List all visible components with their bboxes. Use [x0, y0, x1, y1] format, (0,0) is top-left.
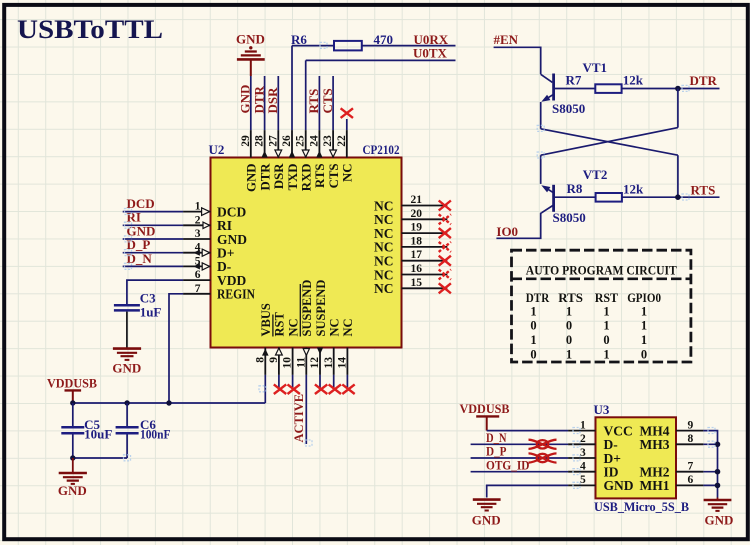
wire C5/C6 bottom join: [73, 457, 127, 459]
net label GND: [127, 223, 156, 238]
pin number 7 (U3): [688, 461, 694, 473]
pin number 28: [254, 135, 266, 147]
svg-text:GND: GND: [604, 478, 634, 493]
svg-text:USB_Micro_5S_B: USB_Micro_5S_B: [594, 500, 689, 514]
svg-text:0: 0: [603, 333, 609, 347]
transistor VT1 S8050: [541, 74, 554, 102]
svg-text:29: 29: [240, 135, 252, 147]
pin name MH3: [640, 437, 670, 452]
svg-text:19: 19: [411, 222, 423, 234]
svg-text:GND: GND: [238, 85, 253, 114]
no-ERC cross pin20: [439, 214, 451, 224]
svg-text:CP2102: CP2102: [363, 142, 400, 157]
designator C3: [140, 291, 156, 306]
earth ground below U3 right: [704, 498, 734, 528]
pin number 6: [195, 269, 201, 281]
pin name GND (pin3): [217, 232, 247, 247]
svg-text:ACTIVE: ACTIVE: [292, 394, 306, 443]
pin number 10: [282, 357, 294, 369]
pin name VBUS (rotated): [259, 303, 273, 336]
wire net RI to pin2: [123, 224, 183, 226]
svg-text:4: 4: [580, 461, 586, 473]
pin number 4 (U3): [580, 461, 586, 473]
wire net D_N to pin2: [471, 443, 568, 445]
pin number 8: [254, 357, 266, 363]
net label CTS (rotated, pin23): [320, 88, 335, 113]
svg-text:DTR: DTR: [258, 163, 272, 191]
wire pin5 to ground: [487, 485, 568, 497]
svg-text:DTR: DTR: [690, 73, 718, 88]
top pins of U2 (29..22): [251, 130, 347, 157]
pin name NC (pin14): [341, 318, 355, 336]
differential pair mark D_N: [529, 440, 557, 449]
no-ERC cross pin10: [288, 384, 300, 394]
wire RXD to U0TX: [306, 59, 456, 61]
auto program table dashed box: [512, 250, 691, 362]
pin name DSR: [272, 163, 286, 189]
table row 2: [530, 319, 647, 333]
svg-text:1: 1: [603, 304, 609, 318]
svg-text:NC: NC: [341, 164, 355, 182]
output arrow pin11: [303, 349, 309, 356]
no-ERC cross pin18: [439, 242, 451, 252]
pin name GND (U3): [604, 478, 634, 493]
wire pin22 NC stub: [346, 119, 348, 130]
pin number 9: [268, 357, 280, 363]
pin number 2: [195, 214, 201, 226]
resistor R8 body: [596, 193, 622, 202]
wire TXD to R6: [292, 45, 334, 47]
designator U3: [594, 402, 610, 417]
table header RST: [595, 290, 619, 305]
pin name MH1: [640, 478, 670, 493]
svg-text:GND: GND: [58, 483, 87, 498]
wire net GND to pin3: [123, 238, 183, 240]
wire REGIN pin7 riser: [169, 294, 183, 403]
svg-text:0: 0: [530, 319, 536, 333]
svg-text:SUSPEND: SUSPEND: [300, 280, 314, 337]
designator VT1: [583, 60, 608, 75]
capacitor C6: [116, 403, 139, 458]
svg-text:U2: U2: [209, 142, 225, 157]
net label U0RX: [414, 32, 449, 47]
wire net OTG_ID to pin4: [471, 471, 568, 473]
no-ERC cross pin15: [439, 283, 451, 293]
input arrow pin1: [202, 208, 210, 216]
pin name D+: [217, 246, 234, 261]
no-ERC cross pin16: [439, 270, 451, 280]
pin name RTS: [313, 164, 327, 188]
svg-text:NC: NC: [374, 267, 394, 282]
wire stub pin9: [278, 375, 280, 389]
svg-text:TXD: TXD: [286, 164, 300, 191]
wire VDDUSB to pin1: [487, 430, 568, 432]
designator R6: [291, 32, 307, 47]
pin number 9 (U3): [688, 419, 694, 431]
pin name NC (pin20): [374, 212, 394, 227]
svg-text:3: 3: [195, 228, 201, 240]
svg-text:1: 1: [641, 319, 647, 333]
earth ground below C3: [112, 349, 141, 376]
no-ERC cross pin12: [315, 384, 327, 394]
svg-text:#EN: #EN: [494, 32, 519, 47]
svg-text:21: 21: [411, 194, 423, 206]
wire pin8 VBUS to rail: [264, 375, 266, 403]
wire C3 to ground: [126, 312, 128, 348]
wire pin28 DTR: [264, 76, 266, 130]
wire DTR node down: [677, 89, 679, 128]
wire pin11 SUSPEND / ACTIVE: [305, 375, 307, 444]
pin name REGIN: [217, 287, 255, 302]
svg-text:9: 9: [268, 357, 280, 363]
svg-text:1: 1: [566, 347, 572, 361]
pin number 1 (U3): [580, 419, 586, 431]
pin number 27: [267, 135, 279, 147]
net label GND (rotated, pin29): [238, 85, 253, 114]
svg-text:26: 26: [281, 135, 293, 147]
svg-text:U0TX: U0TX: [413, 46, 448, 61]
svg-text:1: 1: [641, 304, 647, 318]
svg-text:R6: R6: [291, 32, 307, 47]
pin name GND (top row, rotated): [245, 164, 259, 192]
svg-text:24: 24: [308, 135, 320, 147]
junction rail/C5: [70, 400, 75, 405]
input arrow pin27: [275, 150, 282, 157]
svg-text:5: 5: [580, 474, 586, 486]
pin number 7: [195, 283, 201, 295]
bidirectional arrows pin5 D-: [193, 263, 209, 270]
input arrow pin25: [302, 150, 309, 157]
svg-text:10uF: 10uF: [84, 427, 112, 442]
svg-text:RTS: RTS: [691, 183, 716, 198]
value S8050 (VT2): [553, 210, 586, 225]
svg-text:C3: C3: [140, 291, 156, 306]
right pins of U3 (9,8,7,6): [676, 431, 703, 486]
pin number 20: [411, 208, 423, 220]
junction MH2: [715, 469, 721, 475]
svg-text:R7: R7: [566, 72, 582, 87]
svg-text:GND: GND: [705, 513, 734, 528]
svg-text:VBUS: VBUS: [259, 303, 273, 336]
wire VT2 base to R8: [555, 196, 596, 198]
pin number 2 (U3): [580, 433, 586, 445]
wire cross-couple diagonal A: [541, 129, 678, 155]
wire pin27 DSR: [277, 76, 279, 130]
svg-text:0: 0: [641, 347, 647, 361]
pin number 25: [295, 135, 307, 147]
pin name NC (pin10): [286, 318, 300, 336]
net label IO0: [496, 224, 518, 239]
svg-text:1: 1: [530, 333, 536, 347]
pin name VCC (U3): [604, 423, 633, 438]
compile mask marks (light blue): [124, 42, 716, 488]
pin number 13: [323, 357, 335, 369]
net label DCD: [127, 196, 155, 211]
junction C5 bottom: [70, 455, 75, 460]
pin name RI: [217, 218, 232, 233]
left pins of U3 (1..5): [568, 431, 595, 486]
svg-text:12k: 12k: [623, 73, 644, 88]
value S8050 (VT1): [552, 101, 585, 116]
designator VT2: [583, 167, 608, 182]
input arrow pin8: [262, 349, 269, 356]
pin name ID (U3): [604, 465, 619, 480]
svg-text:AUTO PROGRAM CIRCUIT: AUTO PROGRAM CIRCUIT: [526, 263, 677, 278]
wire R6 to U0RX: [362, 45, 456, 47]
net label D_P: [127, 237, 151, 252]
differential pair mark D_P: [529, 453, 557, 462]
pin name NC (pin22): [341, 164, 355, 182]
svg-text:USBToTTL: USBToTTL: [17, 15, 163, 44]
designator R8: [567, 181, 583, 196]
value 10uF: [84, 427, 112, 442]
svg-text:15: 15: [411, 277, 423, 289]
wire VT2 collector to IO0: [496, 213, 541, 239]
svg-text:27: 27: [267, 135, 279, 147]
designator R7: [566, 72, 582, 87]
svg-text:OTG_ID: OTG_ID: [486, 457, 530, 472]
svg-text:0: 0: [566, 333, 572, 347]
svg-text:20: 20: [411, 208, 423, 220]
right pins of U2 (21..15): [402, 206, 448, 289]
pin name D- (U3): [604, 437, 618, 452]
pin number 11: [295, 357, 307, 368]
wire stub pin13: [333, 375, 335, 389]
junction MH1: [715, 483, 721, 489]
svg-text:U3: U3: [594, 402, 610, 417]
wire pin23 CTS: [332, 76, 334, 130]
svg-text:6: 6: [195, 269, 201, 281]
pin number 8 (U3): [688, 433, 694, 445]
pin name NC (pin13): [328, 318, 342, 336]
svg-text:12: 12: [309, 357, 321, 369]
pin name NC (pin19): [374, 226, 394, 241]
svg-text:VDDUSB: VDDUSB: [47, 375, 97, 390]
svg-text:NC: NC: [286, 318, 300, 336]
pin name CTS: [327, 164, 341, 189]
table title AUTO PROGRAM CIRCUIT: [526, 263, 677, 278]
bidirectional arrows pin4 D+: [193, 249, 209, 256]
pin name MH4: [640, 423, 670, 438]
bottom pins of U2 (8..14): [265, 348, 347, 375]
part name CP2102: [363, 142, 400, 157]
input arrow pin23: [330, 150, 337, 157]
earth ground below C5: [58, 458, 87, 498]
pin number 3: [195, 228, 201, 240]
svg-text:14: 14: [337, 357, 349, 369]
svg-text:1uF: 1uF: [140, 305, 162, 320]
svg-text:GPIO0: GPIO0: [627, 290, 661, 305]
svg-text:13: 13: [323, 357, 335, 369]
pin name NC (pin21): [374, 198, 394, 213]
transistor VT2 S8050: [541, 185, 553, 213]
pin number 17: [411, 249, 423, 261]
pin number 23: [322, 135, 334, 147]
no-ERC cross pin19: [439, 228, 451, 238]
pin name SUSPEND (pin11, overline): [300, 280, 314, 337]
net label D_N (USB): [486, 430, 507, 445]
svg-text:100nF: 100nF: [140, 427, 171, 442]
input arrow pin2: [203, 222, 210, 228]
svg-text:7: 7: [688, 461, 694, 473]
connector U3 body: [596, 417, 677, 498]
svg-text:VT1: VT1: [583, 60, 608, 75]
pin name DCD (inside U2): [217, 204, 246, 219]
svg-text:23: 23: [322, 135, 334, 147]
pin name VDD: [217, 273, 246, 288]
svg-text:NC: NC: [374, 226, 394, 241]
wire stub pin10: [292, 375, 294, 389]
svg-text:S8050: S8050: [553, 210, 586, 225]
pin number 15: [411, 277, 423, 289]
svg-text:16: 16: [411, 263, 423, 275]
pin number 14: [337, 357, 349, 369]
svg-text:28: 28: [254, 135, 266, 147]
svg-text:GND: GND: [236, 32, 265, 47]
svg-text:RST: RST: [595, 290, 619, 305]
svg-text:1: 1: [641, 333, 647, 347]
svg-text:1: 1: [603, 347, 609, 361]
svg-text:RXD: RXD: [300, 164, 314, 192]
wire pin25 RXD vertical: [305, 60, 307, 130]
pin number 5: [195, 255, 201, 267]
svg-text:470: 470: [374, 32, 394, 47]
svg-text:CTS: CTS: [327, 164, 341, 189]
resistor R7 body: [595, 84, 621, 93]
svg-text:11: 11: [295, 357, 307, 368]
power port VDDUSB (USB section): [460, 401, 510, 430]
wire cross-couple diagonal B: [541, 128, 678, 156]
pin number 12: [309, 357, 321, 369]
net label D_N: [127, 251, 153, 266]
junction MH3: [715, 442, 721, 448]
wire net D_P to pin3: [471, 457, 568, 459]
wire MH bus right of U3: [703, 431, 717, 498]
pin number 3 (U3): [580, 447, 586, 459]
svg-text:25: 25: [295, 135, 307, 147]
earth ground below U3 left: [472, 500, 501, 528]
pin name NC (pin15): [374, 281, 394, 296]
wire VT1 emitter down: [540, 102, 542, 129]
input arrow pin9: [276, 348, 283, 355]
svg-text:9: 9: [688, 419, 694, 431]
svg-text:1: 1: [530, 304, 536, 318]
capacitor C5: [61, 403, 84, 458]
value 100nF: [140, 427, 171, 442]
wire to RTS node: [677, 155, 679, 197]
pin number 6 (U3): [688, 474, 694, 486]
op IC U2 CP2102 body: [211, 158, 402, 348]
pin name MH2: [640, 465, 670, 480]
title USBToTTL: [17, 15, 163, 44]
designator C6: [140, 417, 156, 432]
svg-text:GND: GND: [245, 164, 259, 192]
svg-text:1: 1: [580, 419, 586, 431]
wire VT1 base to R7: [555, 88, 596, 90]
table row 3: [530, 333, 647, 347]
wire stub pin12: [319, 375, 321, 389]
svg-text:6: 6: [688, 474, 694, 486]
output arrow pin26: [289, 151, 295, 158]
svg-text:VDDUSB: VDDUSB: [460, 401, 510, 416]
wire R8 to RTS: [622, 196, 720, 198]
svg-text:CTS: CTS: [320, 88, 335, 113]
wire #EN to VT1 collector: [494, 47, 541, 74]
svg-text:NC: NC: [374, 281, 394, 296]
svg-text:IO0: IO0: [496, 224, 518, 239]
svg-text:SUSPEND: SUSPEND: [314, 280, 328, 337]
svg-text:NC: NC: [374, 254, 394, 269]
capacitor C3: [114, 305, 140, 310]
net label RI: [127, 210, 141, 225]
no-ERC cross pin14: [342, 384, 354, 394]
net label RTS (rotated, pin24): [306, 89, 321, 114]
pin number 18: [411, 235, 423, 247]
net label OTG_ID: [486, 457, 530, 472]
svg-text:RTS: RTS: [558, 290, 583, 305]
svg-text:MH3: MH3: [640, 437, 670, 452]
svg-text:8: 8: [688, 433, 694, 445]
output arrow pin12: [317, 348, 323, 355]
svg-text:12k: 12k: [623, 181, 644, 196]
pin name NC (pin17): [374, 254, 394, 269]
svg-text:DSR: DSR: [272, 163, 286, 189]
svg-text:RST: RST: [273, 312, 287, 337]
pin name RXD: [300, 164, 314, 192]
net label RTS (right): [691, 183, 716, 198]
pin name D-: [217, 259, 231, 274]
svg-text:GND: GND: [112, 360, 141, 375]
no-ERC cross pin9: [274, 384, 286, 394]
wire R7 to DTR: [622, 88, 720, 90]
wire stub pin14: [346, 375, 348, 389]
pin number 29: [240, 135, 252, 147]
svg-text:0: 0: [566, 319, 572, 333]
svg-text:D_N: D_N: [127, 251, 153, 266]
svg-text:NC: NC: [328, 318, 342, 336]
wire VDD pin6 to C3: [127, 280, 183, 304]
pin number 16: [411, 263, 423, 275]
wire net D_N to pin5: [123, 265, 183, 267]
svg-text:7: 7: [195, 283, 201, 295]
junction rail/C6: [124, 400, 129, 405]
table row 1: [530, 304, 647, 318]
table header GPIO0: [627, 290, 661, 305]
no-ERC cross pin13: [329, 384, 341, 394]
value 12k (R8): [623, 181, 644, 196]
wire pin29 GND: [250, 76, 252, 130]
power ground GND (top, net GND): [236, 32, 265, 76]
svg-text:RTS: RTS: [313, 164, 327, 188]
designator U2: [209, 142, 225, 157]
pin name TXD: [286, 164, 300, 191]
svg-text:DSR: DSR: [265, 87, 280, 114]
table row 4: [530, 347, 647, 361]
value 470: [374, 32, 394, 47]
svg-text:1: 1: [603, 319, 609, 333]
designator C5: [84, 417, 100, 432]
svg-text:1: 1: [195, 201, 201, 213]
resistor R6 body: [334, 41, 362, 51]
value 1uF: [140, 305, 162, 320]
no-ERC cross pin21: [439, 201, 451, 211]
wire pin26 TXD vertical: [291, 46, 293, 131]
pin number 24: [308, 135, 320, 147]
svg-text:18: 18: [411, 235, 423, 247]
svg-text:DTR: DTR: [526, 290, 550, 305]
wire net D_P to pin4: [123, 252, 183, 254]
table header DTR: [526, 290, 550, 305]
